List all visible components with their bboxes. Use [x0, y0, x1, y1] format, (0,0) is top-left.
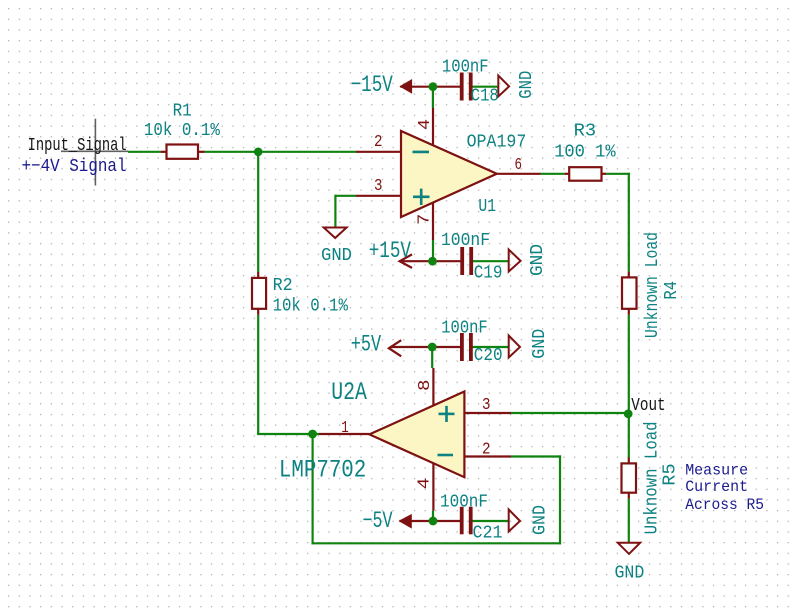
svg-text:Unknown Load: Unknown Load [643, 421, 663, 534]
svg-text:GND: GND [517, 71, 537, 99]
svg-text:100nF: 100nF [440, 492, 488, 512]
svg-text:C18: C18 [471, 87, 499, 107]
svg-text:+15V: +15V [369, 238, 411, 264]
svg-text:100 1%: 100 1% [554, 143, 616, 163]
svg-text:4: 4 [415, 119, 434, 130]
svg-text:Current: Current [685, 478, 748, 496]
svg-text:GND: GND [528, 244, 548, 276]
svg-text:1: 1 [341, 418, 349, 437]
svg-text:100nF: 100nF [441, 319, 487, 339]
svg-text:4: 4 [415, 478, 434, 490]
svg-text:R1: R1 [173, 101, 192, 121]
svg-text:R5: R5 [661, 463, 681, 485]
svg-text:10k 0.1%: 10k 0.1% [144, 121, 220, 141]
svg-text:Input_Signal: Input_Signal [28, 136, 127, 156]
svg-text:Across R5: Across R5 [685, 496, 764, 514]
svg-text:−5V: −5V [363, 508, 393, 534]
svg-text:100nF: 100nF [442, 57, 489, 77]
svg-text:6: 6 [515, 155, 523, 174]
svg-text:C21: C21 [473, 524, 503, 544]
svg-text:+−4V Signal: +−4V Signal [22, 157, 127, 177]
svg-text:3: 3 [374, 176, 383, 195]
svg-text:2: 2 [374, 132, 383, 151]
svg-text:10k 0.1%: 10k 0.1% [273, 296, 348, 316]
svg-text:R4: R4 [662, 281, 682, 300]
svg-text:7: 7 [415, 214, 434, 225]
svg-text:U1: U1 [478, 197, 496, 217]
svg-text:100nF: 100nF [441, 231, 490, 251]
svg-text:R3: R3 [574, 122, 597, 142]
svg-text:R2: R2 [273, 276, 293, 296]
svg-text:U2A: U2A [331, 379, 367, 407]
svg-text:LMP7702: LMP7702 [279, 456, 366, 484]
svg-text:GND: GND [321, 246, 352, 266]
svg-text:OPA197: OPA197 [467, 132, 527, 152]
svg-text:Measure: Measure [685, 462, 748, 480]
svg-text:3: 3 [482, 395, 491, 414]
svg-text:+5V: +5V [351, 332, 382, 358]
svg-text:2: 2 [482, 439, 491, 458]
svg-text:−15V: −15V [351, 72, 393, 98]
svg-text:GND: GND [531, 505, 551, 535]
svg-text:C19: C19 [474, 264, 503, 284]
svg-text:GND: GND [530, 329, 550, 359]
svg-text:Vout: Vout [631, 396, 665, 416]
svg-text:GND: GND [615, 564, 645, 584]
svg-text:C20: C20 [474, 346, 503, 366]
svg-text:8: 8 [415, 380, 434, 392]
svg-text:Unknown Load: Unknown Load [643, 232, 663, 338]
